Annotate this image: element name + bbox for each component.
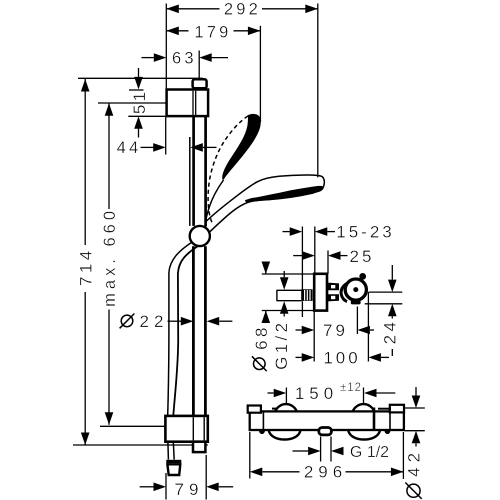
dim 79 (valve, outside arrows) <box>296 329 302 331</box>
ext line bracket-left (dims 292/179/63) <box>165 4 167 90</box>
dim 24 (outside arrows) <box>391 265 393 280</box>
ext lines for 24 <box>369 291 403 293</box>
dim G1/2 (thermostat) <box>293 450 309 452</box>
ext lines for bottom 79 <box>165 473 167 500</box>
left end cap <box>248 406 261 413</box>
svg-text:22: 22 <box>140 312 169 331</box>
bottom wall bracket <box>165 416 207 442</box>
step lines near humps <box>272 408 278 410</box>
svg-text:24: 24 <box>380 319 399 345</box>
svg-text:150: 150 <box>295 384 338 403</box>
dim Ø42 (outside arrows) <box>415 387 417 396</box>
handle knob: small top circle <box>359 273 366 280</box>
ext line knob right edge <box>367 292 369 361</box>
hose below bottom bracket <box>168 442 174 460</box>
dim Ø22 (outside arrows) <box>168 320 182 322</box>
ext lines for Ø68 <box>262 273 314 275</box>
svg-text:15-23: 15-23 <box>336 223 394 242</box>
dim max660 vertical line <box>108 103 110 209</box>
rail top cap <box>193 79 207 88</box>
svg-text:296: 296 <box>304 463 347 482</box>
svg-text:100: 100 <box>323 349 360 368</box>
thermostat body <box>250 411 404 430</box>
ext wall line <box>301 227 303 291</box>
inner joint lines <box>262 413 264 430</box>
ext line raised-head tip for dim 179 <box>259 26 261 122</box>
ext line bracket bottom for 51 <box>128 115 166 117</box>
slider / hose joint circle <box>190 226 210 246</box>
dim G1/2 (valve, outside arrows) <box>283 271 285 277</box>
handle knob: centre dot <box>353 287 358 292</box>
dim 63 (outside arrows) <box>142 57 155 59</box>
svg-text:G1/2: G1/2 <box>272 319 291 369</box>
small lug right <box>384 431 390 434</box>
left union nut (bottom) <box>269 431 301 440</box>
spray face (black band) of hand shower <box>246 187 323 203</box>
centre outlet (G1/2) <box>319 428 332 435</box>
svg-text:714: 714 <box>76 247 95 286</box>
hose upper curve (outer) <box>168 242 192 415</box>
dim 24 text (rotated) <box>380 319 399 345</box>
svg-text:179: 179 <box>194 23 231 41</box>
raised position: black spray face <box>222 114 261 180</box>
rail lines inside top bracket <box>192 91 194 115</box>
svg-text:25: 25 <box>350 247 375 266</box>
svg-text:G 1/2: G 1/2 <box>350 444 389 461</box>
hose nut cone <box>167 464 180 475</box>
svg-text:79: 79 <box>175 480 204 499</box>
dim 292 line <box>166 8 219 10</box>
ext line bracket-left lower for 44 <box>165 117 167 155</box>
svg-text:max. 660: max. 660 <box>101 207 119 307</box>
right end cap <box>390 405 404 413</box>
ext line bracket top for 51 <box>129 89 144 91</box>
dim 714 vertical line <box>84 79 86 245</box>
ext line head right edge for dim 292 <box>317 4 319 178</box>
svg-text:44: 44 <box>117 139 142 157</box>
dim 714 text (rotated) <box>76 247 95 286</box>
raised position: dashed outline <box>208 116 248 225</box>
ext lines port centres <box>285 388 287 405</box>
svg-text:79: 79 <box>323 321 348 340</box>
dim Ø42 text (rotated) <box>405 448 424 499</box>
dim 296 <box>262 471 299 473</box>
ext line rail bottom for 714 <box>73 444 208 446</box>
raised position: solid lower edge <box>206 180 224 222</box>
ext line knob plane <box>356 307 358 335</box>
ext line wall plane below flange <box>313 311 315 362</box>
dim 15-23 <box>283 231 291 233</box>
svg-text:51: 51 <box>130 88 149 114</box>
ext line rail-centre for dim 63 <box>198 51 200 80</box>
top wall bracket <box>167 90 209 117</box>
dim G1/2 text (rotated, valve) <box>272 319 291 369</box>
rail end piece below bottom bracket <box>193 442 205 452</box>
dim 25 <box>293 255 303 257</box>
svg-text:±12: ±12 <box>340 382 362 394</box>
left union nut (top hump) <box>275 404 296 411</box>
wall bar (rail) upper section <box>192 117 195 226</box>
dim Ø22 symbol <box>121 315 133 327</box>
handle crescent <box>341 284 347 302</box>
ext lines Ø42 <box>404 407 425 409</box>
ext line hose/slider edge for 44 <box>189 137 191 226</box>
hand shower handle+head outline (solid position) <box>205 175 324 232</box>
ext finished wall line <box>314 227 316 275</box>
dim 51 text (rotated) <box>130 88 149 114</box>
right union nut (bottom) <box>348 431 380 440</box>
svg-text:63: 63 <box>172 50 197 68</box>
dim 179 line <box>166 30 188 32</box>
dim 100 (outside arrows) <box>296 356 302 358</box>
hose upper curve (inner) <box>173 247 197 416</box>
dim Ø68 (outside arrows) <box>262 262 271 275</box>
raised position: solid tip outline <box>248 115 261 122</box>
handle knob: outer ring <box>345 279 366 300</box>
dim 79 (bottom of rail, outside arrows) <box>140 486 154 488</box>
dim 51 (outside arrows, rotated text) <box>138 68 140 78</box>
dim 44 <box>141 146 154 148</box>
valve flange / escutcheon (side) <box>314 274 327 311</box>
small lug left <box>259 431 265 434</box>
svg-text:68: 68 <box>252 324 271 350</box>
svg-text:292: 292 <box>224 1 261 19</box>
dim max660 text (rotated) <box>101 207 119 307</box>
ext line bottom for max660 <box>100 425 165 427</box>
handle knob: bottom tab <box>351 300 361 304</box>
ext line rail top for 714 <box>78 77 203 79</box>
rail lines inside bottom bracket <box>192 417 194 440</box>
supply pipe stub <box>276 289 301 291</box>
ext lines 296 <box>249 432 251 479</box>
hose nut top bar <box>166 460 181 463</box>
svg-text:42: 42 <box>405 448 424 477</box>
rail lower section <box>192 246 195 416</box>
right union nut (top hump) <box>353 404 374 411</box>
dim 150±12 <box>268 392 274 394</box>
ext line top for max660 <box>98 102 166 104</box>
ext lines outlet <box>320 437 322 462</box>
threaded connector (ribbed block) <box>301 289 312 301</box>
ext flange front line <box>327 251 329 274</box>
dim Ø68 text (rotated) <box>252 324 271 371</box>
link bars to handle <box>328 283 339 302</box>
